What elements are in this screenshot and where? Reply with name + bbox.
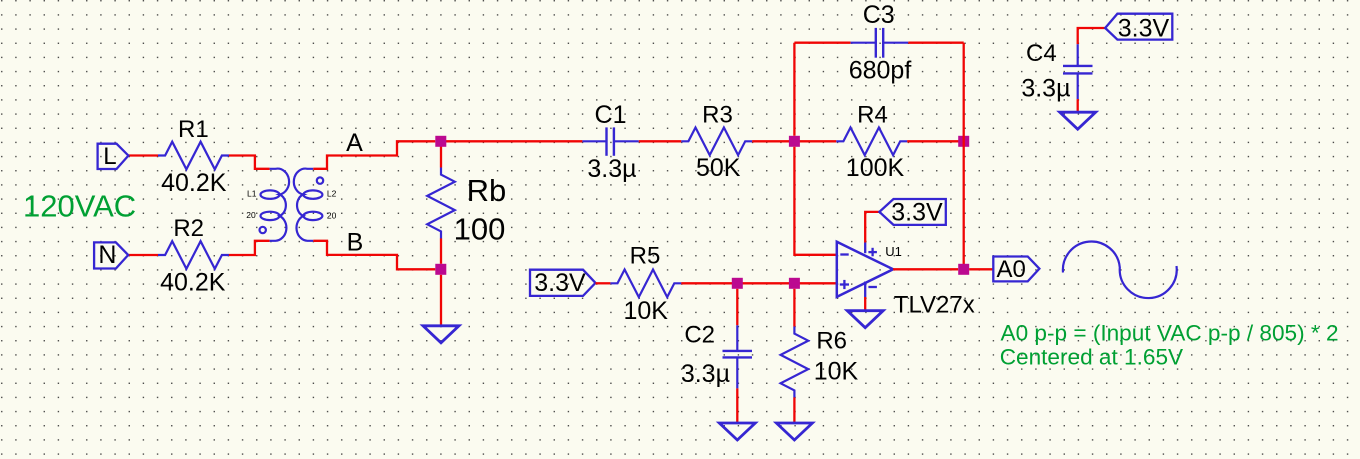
wire output to A0 <box>969 268 993 270</box>
flag 3.3V at op-amp <box>879 199 945 225</box>
resistor R3 <box>681 128 752 156</box>
transformer T1 primary winding L1 <box>260 169 290 241</box>
svg-text:3.3µ: 3.3µ <box>681 360 730 388</box>
junction output <box>958 264 969 275</box>
wire minus input <box>794 147 836 255</box>
op-amp V- sign <box>868 286 877 288</box>
wire feedback left vertical <box>793 43 795 136</box>
wire A: transformer to node <box>313 141 435 169</box>
svg-text:C4: C4 <box>1026 40 1057 67</box>
wire R6 top <box>793 289 795 327</box>
svg-text:3.3V: 3.3V <box>1118 14 1170 42</box>
svg-text:680pf: 680pf <box>849 56 912 84</box>
svg-text:100K: 100K <box>846 154 905 182</box>
svg-text:100: 100 <box>454 212 506 247</box>
svg-text:A0 p-p = (Input VAC p-p / 805): A0 p-p = (Input VAC p-p / 805) * 2 <box>1001 321 1339 346</box>
svg-text:3.3V: 3.3V <box>891 198 943 226</box>
wire op-amp output <box>893 268 958 270</box>
svg-text:R1: R1 <box>178 116 209 143</box>
svg-text:L: L <box>103 143 116 170</box>
transformer T1 secondary winding L2 <box>294 169 323 241</box>
op-amp U1 <box>837 242 893 297</box>
junction node B <box>435 264 446 275</box>
wire L to R1 <box>128 154 158 156</box>
wire R3 to R4 <box>752 140 836 142</box>
svg-text:10K: 10K <box>814 358 859 386</box>
op-amp V- pin <box>864 282 866 298</box>
svg-text:3.3µ: 3.3µ <box>1021 75 1070 103</box>
junction C2 node <box>732 278 743 289</box>
wire C2 top <box>736 289 738 326</box>
capacitor C2 <box>723 325 753 388</box>
wire Rb top <box>440 141 442 167</box>
svg-text:R5: R5 <box>630 242 661 269</box>
ground below R6 <box>776 423 812 440</box>
wire R6 to ground <box>793 397 795 423</box>
wire C4 to ground <box>1077 99 1079 112</box>
svg-text:L1: L1 <box>247 188 257 198</box>
resistor R6 <box>781 327 809 398</box>
ground below Rb <box>423 326 459 343</box>
junction R3 R4 <box>789 136 800 147</box>
resistor R5 <box>610 270 681 298</box>
wire R4 to right node <box>907 140 964 142</box>
wire right vertical <box>963 43 965 270</box>
flag 3.3V at C4 <box>1105 14 1172 40</box>
svg-text:R4: R4 <box>857 102 888 129</box>
wire op-amp V- to ground <box>864 297 866 311</box>
capacitor C4 <box>1063 44 1093 99</box>
resistor R4 <box>836 128 907 156</box>
svg-text:C1: C1 <box>595 101 627 129</box>
wire Rb bottom <box>440 238 442 263</box>
svg-text:Centered at 1.65V: Centered at 1.65V <box>1000 345 1183 370</box>
op-amp V+ pin <box>864 243 866 254</box>
svg-text:3.3µ: 3.3µ <box>587 155 636 183</box>
svg-text:50K: 50K <box>696 154 741 182</box>
wire feedback top right <box>908 42 963 44</box>
svg-text:U1: U1 <box>885 244 902 259</box>
wire node A to C1 <box>441 140 582 142</box>
op-amp V+ sign <box>868 248 877 256</box>
wire to ground below Rb <box>440 275 442 326</box>
svg-text:20: 20 <box>327 210 337 220</box>
op-amp minus input sign <box>840 253 848 255</box>
svg-text:R6: R6 <box>816 327 847 354</box>
svg-text:A: A <box>346 129 363 157</box>
capacitor C1 <box>582 127 638 155</box>
flag 3.3V at R5 <box>530 270 596 296</box>
svg-text:R2: R2 <box>173 215 204 242</box>
wire C4 to 3.3V <box>1078 28 1106 44</box>
wire R2 to transformer <box>229 241 270 255</box>
sine wave symbol <box>1063 241 1177 298</box>
wire feedback top left <box>794 42 850 44</box>
ground below C4 <box>1060 112 1096 129</box>
svg-text:40.2K: 40.2K <box>160 269 226 297</box>
port L <box>98 144 129 169</box>
svg-text:B: B <box>347 228 364 256</box>
capacitor C3 <box>851 28 909 58</box>
wire 3.3V to op-amp V+ <box>865 212 879 243</box>
ground below C2 <box>719 423 755 440</box>
resistor R2 <box>158 241 229 269</box>
svg-text:120VAC: 120VAC <box>23 189 136 224</box>
svg-text:40.2K: 40.2K <box>161 169 227 197</box>
svg-text:10K: 10K <box>623 297 668 325</box>
svg-text:20: 20 <box>246 210 256 220</box>
junction right node <box>958 136 969 147</box>
op-amp plus input sign <box>840 280 849 289</box>
port N <box>94 242 128 268</box>
wire R5 to plus input <box>681 282 837 284</box>
svg-text:C3: C3 <box>863 1 895 29</box>
wire R1 to transformer <box>229 156 270 169</box>
svg-text:N: N <box>98 241 116 269</box>
wire C2 to ground <box>736 388 738 423</box>
port A0 <box>993 257 1039 282</box>
svg-text:3.3V: 3.3V <box>534 269 586 297</box>
resistor Rb <box>427 168 455 239</box>
svg-text:TLV27x: TLV27x <box>894 291 975 318</box>
svg-text:R3: R3 <box>702 102 733 129</box>
svg-text:C2: C2 <box>684 322 715 349</box>
junction R6 node <box>789 278 800 289</box>
svg-text:L2: L2 <box>327 188 337 198</box>
wire B: transformer to node <box>313 241 435 269</box>
wire flag to R5 <box>596 282 611 284</box>
svg-text:Rb: Rb <box>467 173 507 208</box>
junction node A <box>435 136 446 147</box>
svg-text:A0: A0 <box>997 256 1026 283</box>
wire N to R2 <box>128 254 158 256</box>
resistor R1 <box>158 142 229 170</box>
wire C1 to R3 <box>639 140 682 142</box>
ground below op-amp <box>847 311 883 328</box>
